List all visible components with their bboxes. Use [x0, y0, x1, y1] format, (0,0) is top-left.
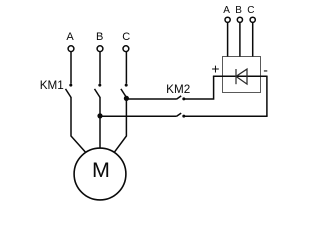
terminal C (rectifier input) — [250, 17, 255, 22]
node A label (left) — [66, 31, 74, 43]
label minus — [263, 62, 268, 78]
wire terminal C to rectifier block — [252, 23, 254, 57]
label KM2 — [166, 83, 190, 96]
terminal C (left) — [123, 46, 129, 52]
node B label (rectifier input) — [235, 5, 242, 16]
svg-text:+: + — [211, 60, 219, 76]
contact KM2 upper — [176, 96, 185, 101]
label plus — [211, 60, 219, 76]
junction on phase C line — [124, 96, 129, 101]
diode D1 triangle — [236, 69, 247, 84]
wire KM1 pole B to motor — [99, 97, 101, 148]
contact KM1 pole C — [121, 84, 128, 98]
svg-text:A: A — [223, 5, 230, 16]
motor M1 circle — [74, 148, 126, 200]
wire right side to KM2 lower contact — [184, 115, 268, 117]
label KM1 — [40, 79, 64, 92]
wire KM2 lower contact to junction B — [100, 115, 176, 117]
svg-text:KM2: KM2 — [166, 83, 190, 96]
contact KM2 lower — [176, 113, 185, 118]
node A label (rectifier input) — [223, 5, 230, 16]
svg-text:C: C — [247, 5, 254, 16]
wire terminal A down to KM1 pole A — [70, 52, 72, 84]
svg-text:C: C — [122, 31, 130, 43]
svg-text:B: B — [235, 5, 242, 16]
diode D1 cathode bar — [235, 69, 237, 84]
rectifier block U1 outline — [223, 57, 261, 93]
terminal A (left) — [68, 46, 74, 52]
svg-text:A: A — [66, 31, 74, 43]
wire DC bus through rectifier block — [213, 75, 267, 77]
wire junction C to KM2 upper contact — [126, 98, 176, 100]
wire terminal A to rectifier block — [227, 23, 229, 57]
wire terminal B down to KM1 pole B — [99, 52, 101, 84]
wire KM2 upper contact to plus terminal of rectifier — [184, 76, 214, 99]
svg-text:-: - — [263, 62, 268, 78]
node B label (left) — [96, 31, 103, 43]
svg-text:B: B — [96, 31, 103, 43]
junction on phase B line — [97, 113, 102, 118]
wire minus terminal down right side — [266, 76, 268, 117]
terminal A (rectifier input) — [225, 17, 230, 22]
motor M1 letter — [92, 158, 110, 182]
contact KM1 pole B — [95, 84, 102, 98]
contact KM1 pole A — [66, 84, 73, 98]
node C label (rectifier input) — [247, 5, 254, 16]
node C label (left) — [122, 31, 130, 43]
terminal B (rectifier input) — [237, 17, 242, 22]
terminal B (left) — [97, 46, 103, 52]
svg-text:KM1: KM1 — [40, 79, 64, 92]
wire terminal B to rectifier block — [239, 23, 241, 57]
wire terminal C down to KM1 pole C — [125, 52, 127, 84]
wire KM1 pole A to motor — [71, 97, 86, 153]
svg-text:M: M — [92, 158, 110, 182]
wire KM1 pole C to motor — [114, 97, 126, 153]
